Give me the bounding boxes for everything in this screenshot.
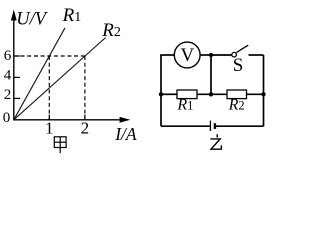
wire middle left segment (161, 93, 177, 95)
battery positive plate (long) (209, 121, 211, 131)
svg-text:4: 4 (4, 68, 12, 84)
wire voltmeter to node A (200, 54, 211, 56)
voltmeter V (174, 42, 200, 68)
svg-text:2: 2 (4, 87, 12, 103)
dashed level U=6 (14, 55, 85, 57)
svg-text:0: 0 (3, 110, 11, 126)
line R2 (shallow I-U characteristic) (14, 38, 106, 120)
svg-text:I/A: I/A (114, 124, 137, 144)
wire left vertical (160, 55, 162, 126)
wire bottom right segment (216, 125, 264, 127)
resistor R1 (box) (177, 90, 197, 99)
svg-text:S: S (233, 55, 244, 76)
wire R1 to node B (197, 93, 227, 95)
node B (junction dot middle) (209, 92, 213, 96)
dashed vertical I=1 (48, 56, 50, 119)
resistor R2 (box) (227, 90, 247, 99)
node A (junction dot top) (209, 53, 213, 57)
y tick 2 (14, 97, 20, 99)
switch S lever (open) (237, 45, 249, 52)
line R1 (steep I-U characteristic) (14, 28, 65, 120)
switch S contact post (232, 52, 237, 57)
wire right vertical (263, 55, 265, 126)
wire top left segment (160, 54, 174, 56)
node left (dot) (159, 92, 163, 96)
graph I axis (horizontal) (13, 117, 130, 123)
svg-text:1: 1 (45, 118, 54, 137)
wire switch to top right corner (249, 54, 264, 56)
y tick 4 (14, 76, 20, 78)
x tick 1 (48, 115, 50, 120)
wire middle vertical (node A to node B) (210, 55, 212, 94)
battery negative plate (short thick) (214, 123, 216, 129)
graph U axis (vertical) (11, 10, 17, 120)
svg-text:U/V: U/V (16, 10, 49, 30)
wire node A to switch (211, 54, 232, 56)
svg-text:R1: R1 (62, 5, 82, 26)
wire R2 to right vertical (247, 93, 264, 95)
dashed vertical I=2 (84, 56, 86, 119)
y tick 6 (14, 55, 20, 57)
svg-text:R2: R2 (101, 20, 121, 41)
x tick 2 (84, 115, 86, 120)
svg-text:6: 6 (4, 48, 12, 64)
svg-text:R2: R2 (228, 96, 245, 113)
node right (dot) (261, 92, 265, 96)
svg-text:2: 2 (81, 118, 90, 137)
caption 乙 (circuit) (210, 134, 221, 149)
caption 甲 (graph) (54, 137, 66, 153)
svg-text:R1: R1 (176, 96, 193, 113)
wire bottom left segment (161, 125, 210, 127)
svg-text:V: V (181, 45, 195, 66)
